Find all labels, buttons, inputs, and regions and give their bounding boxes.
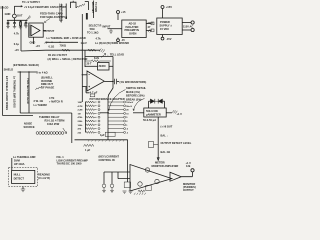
node shield rail hatch [88, 140, 125, 142]
connector PS1 AC 1 [191, 21, 194, 24]
svg-text:20 T: 20 T [87, 61, 93, 65]
wire PS1 right 1 [182, 22, 191, 24]
wire PS1 right 2 [182, 29, 191, 31]
svg-text:OUTPUT DETECT LEVEL: OUTPUT DETECT LEVEL [161, 141, 192, 145]
svg-text:BAL 4Ω: BAL 4Ω [161, 150, 171, 154]
svg-text:ISOLATED: ISOLATED [126, 25, 139, 29]
wire dvm ground stub [22, 187, 24, 190]
svg-text:R3 0.1Ω 4 TERM: R3 0.1Ω 4 TERM [45, 119, 65, 123]
wire main bus B1 vertical [81, 14, 83, 102]
svg-text:1μF: 1μF [100, 133, 105, 137]
wire U2 output [104, 80, 113, 82]
svg-text:READING: READING [38, 172, 50, 176]
svg-text:100mV: 100mV [126, 102, 134, 104]
ground DVM [21, 189, 25, 192]
svg-text:OF PHASE: OF PHASE [41, 86, 55, 90]
svg-text:NOISE: NOISE [24, 121, 32, 125]
connector PS1 AC 2 [191, 28, 194, 31]
svg-text:Lo (N) HI (W) WIRE WOUND: Lo (N) HI (W) WIRE WOUND [95, 41, 129, 45]
wire pointer arrow up-right [101, 54, 106, 58]
svg-text:BAL ↓: BAL ↓ [161, 134, 168, 138]
svg-text:INPUT CABLE: INPUT CABLE [59, 4, 63, 21]
svg-text:NULL: NULL [14, 173, 21, 177]
ground R1 [19, 27, 22, 29]
node U2 plus [88, 86, 90, 88]
capacitor C2 [13, 20, 16, 26]
wire U2 input top [82, 74, 87, 76]
wire cable 1 guide [58, 4, 60, 22]
wire U3 to psu top [146, 23, 151, 25]
wire ladder left bus [85, 102, 87, 132]
svg-text:OUT: OUT [17, 14, 23, 18]
svg-text:+15V: +15V [166, 5, 172, 9]
ground C8 [110, 188, 114, 193]
wire power leg to row [21, 49, 46, 52]
resistor R1 leg [20, 20, 22, 27]
wire selected tap row [100, 112, 108, 114]
preamp U3 box [122, 20, 146, 38]
svg-text:DVM: DVM [14, 159, 20, 163]
wire PS1 top [162, 9, 164, 19]
svg-text:POWER: POWER [160, 20, 170, 24]
svg-text:15 VDC: 15 VDC [160, 27, 169, 31]
svg-text:POT REFERENCE ADAPTER: POT REFERENCE ADAPTER [90, 97, 125, 101]
ground A1 left2 [129, 191, 133, 193]
wire cable 2 [65, 4, 67, 17]
svg-text:(±1 mV R): (±1 mV R) [38, 176, 50, 180]
node bus junction dot [107, 112, 109, 114]
wire shield border bottom [3, 115, 34, 117]
svg-text:TWISTED PAIR LEAD: TWISTED PAIR LEAD [26, 78, 30, 104]
svg-text:EXT SHIELD GUARD WIRES: EXT SHIELD GUARD WIRES [5, 76, 9, 110]
wire bottom row y112 [20, 112, 72, 114]
svg-text:MAKE (1%): MAKE (1%) [126, 90, 140, 94]
svg-text:4.7M: 4.7M [78, 105, 83, 108]
node junction s1 [20, 71, 21, 72]
svg-text:SWITCH DETAIL: SWITCH DETAIL [126, 86, 147, 90]
node PS1 left terminal 1 [151, 22, 154, 25]
wire drop to coil [71, 113, 73, 143]
wire U2 input bottom [82, 86, 87, 88]
wire PS1 bottom stub [162, 35, 164, 38]
resistor R6 feedback [85, 60, 111, 62]
svg-text:GND: GND [30, 40, 36, 44]
svg-text:μAMMETER: μAMMETER [146, 112, 161, 116]
wire feedback loop top [85, 56, 113, 58]
wire input rail [7, 19, 28, 21]
svg-text:100A 25W: 100A 25W [47, 122, 60, 126]
amplifier A2 small triangle [170, 172, 181, 181]
wire output down bus B2 [108, 81, 113, 98]
wire feed-thru pointer arrow [45, 19, 50, 23]
svg-text:+OUT: +OUT [147, 21, 154, 25]
svg-text:OVEN: OVEN [129, 32, 136, 36]
wire U1 power stub [33, 37, 35, 44]
svg-text:100k: 100k [78, 125, 84, 127]
wire twisted pair bracket [71, 1, 77, 8]
capacitor C4 output [114, 79, 116, 84]
wire row B right with resistor R5 [81, 49, 100, 51]
wire R7 left link [85, 65, 98, 67]
node junction s2 [28, 71, 29, 72]
resistor R3 diagonal zigzag [76, 3, 85, 8]
svg-text:750Ω: 750Ω [60, 44, 66, 48]
node row A left slashes [44, 41, 48, 44]
svg-text:MONITOR AMPLIFIER: MONITOR AMPLIFIER [152, 164, 179, 168]
wire feedback loop left vertical [84, 50, 86, 67]
wire rc leg 1 [103, 172, 105, 184]
svg-text:BEFORE (10%): BEFORE (10%) [126, 94, 145, 98]
svg-text:0.1μ: 0.1μ [14, 42, 20, 46]
svg-text:METER/: METER/ [155, 161, 165, 165]
connector -15V [161, 37, 164, 40]
svg-text:2 W. 4Ω: 2 W. 4Ω [34, 99, 43, 103]
ground C3 [24, 26, 27, 28]
node shield text [84, 144, 94, 146]
potentiometer arrow R2 [27, 16, 31, 21]
ladder left terminal circles [98, 101, 100, 133]
resistor ladder rows [86, 101, 97, 133]
resistor R4 on row B [62, 49, 70, 51]
power supply PS1 box [157, 18, 182, 35]
svg-text:1M: 1M [78, 113, 81, 115]
svg-text:4 TE: 4 TE [49, 96, 55, 100]
ground A1 left1 [123, 191, 127, 193]
wire amp input stub [118, 172, 130, 179]
wire shield drop 2 [28, 72, 30, 113]
wire U1 output [43, 30, 46, 32]
svg-text:+15: +15 [36, 44, 41, 48]
wire A2 output [181, 172, 192, 177]
dvm shield dashed box [9, 168, 38, 187]
op-amp U1 module box [29, 23, 43, 37]
svg-text:+ MATCH R: + MATCH R [49, 99, 63, 103]
node junction U2 out [112, 81, 114, 83]
svg-text:PREAMP IN: PREAMP IN [125, 28, 139, 32]
svg-text:INPUT: INPUT [103, 25, 111, 29]
op-amp U2 [87, 71, 104, 91]
ground U3 input [109, 29, 113, 34]
svg-text:(A) WELL + SMALL | DETECTOR: (A) WELL + SMALL | DETECTOR [48, 57, 88, 61]
wire diode stubs [149, 101, 165, 108]
svg-text:(B) WELL: (B) WELL [41, 75, 53, 79]
svg-text:DME OUT: DME OUT [41, 82, 53, 86]
node cable2 plug [65, 17, 67, 19]
ground C7 [102, 188, 106, 193]
svg-text:12k: 12k [186, 164, 191, 168]
wire dvm stub [11, 158, 13, 170]
svg-text:SH.GD: SH.GD [0, 6, 8, 10]
wire R7 right link [109, 65, 113, 67]
wire U3 input [108, 28, 122, 30]
capacitor C1 [7, 20, 10, 26]
node hatch between boxes [148, 29, 152, 32]
middle ladder rungs [108, 102, 124, 132]
diode D2 [158, 99, 162, 104]
svg-text:THURS DC 100 1000: THURS DC 100 1000 [57, 162, 82, 166]
node U2 minus [88, 74, 90, 76]
node junction bus input [82, 74, 83, 75]
capacitor C8 [110, 184, 114, 188]
svg-text:220k: 220k [78, 121, 84, 123]
node +V arrowhead [21, 5, 23, 7]
amplifier A1 big triangle [130, 165, 172, 192]
svg-text:IN DOME: IN DOME [41, 79, 52, 83]
wire c9 stub [126, 172, 128, 182]
svg-text:2.2M: 2.2M [78, 110, 83, 112]
svg-text:-15V: -15V [166, 37, 172, 41]
svg-text:115V AC: 115V AC [183, 24, 193, 28]
ground C2 [13, 27, 16, 29]
svg-text:+15: +15 [14, 48, 19, 52]
capacitor box under A1 [146, 185, 151, 190]
wire U3 to psu bottom [146, 30, 151, 32]
capacitor C9 box [124, 182, 130, 188]
svg-text:Lo THERM: Lo THERM [34, 103, 47, 107]
svg-text:TO +V SUPPLY: TO +V SUPPLY [22, 0, 40, 4]
connector -15 [117, 39, 120, 42]
ground meter right hatch [172, 110, 177, 114]
svg-text:50mV: 50mV [126, 106, 132, 108]
wire shield row y72 [18, 71, 38, 73]
wire left shield border vertical [2, 6, 4, 116]
svg-text:4.7k: 4.7k [96, 37, 102, 41]
svg-text:R1 2Ω 4 W POT: R1 2Ω 4 W POT [48, 53, 67, 57]
svg-text:(1% WW RESISTORS): (1% WW RESISTORS) [120, 80, 147, 84]
svg-text:+15: +15 [121, 10, 126, 14]
svg-text:1 μF: 1 μF [85, 148, 91, 152]
svg-text:AD-52: AD-52 [129, 21, 137, 25]
wire shield drop 1 [19, 72, 21, 113]
op-amp U1 triangle [31, 25, 40, 36]
svg-text:GND: GND [5, 12, 11, 16]
wire +V arrow J1 [14, 5, 22, 7]
node L1 pointer arrow [63, 128, 67, 133]
transistor Q2 circle [138, 182, 142, 186]
node junction dots row A [51, 42, 52, 43]
svg-text:DETECT: DETECT [14, 177, 25, 181]
svg-text:1 mV: 1 mV [81, 41, 87, 45]
wire cap to text [117, 80, 119, 82]
svg-text:+1 V: +1 V [177, 112, 183, 116]
node PS1 left terminal 2 [151, 29, 154, 32]
svg-text:(+ HI OUT: (+ HI OUT [161, 124, 173, 128]
wire cable 5 [92, 1, 94, 19]
svg-text:OUTPUT: OUTPUT [44, 29, 55, 33]
capacitor C3 [25, 20, 28, 26]
wire ladder bottom shield rail [75, 139, 128, 141]
svg-text:4.7k: 4.7k [14, 32, 20, 36]
svg-text:0.1Ω: 0.1Ω [49, 44, 55, 48]
node connector blob [86, 13, 88, 20]
svg-text:SHIELD: SHIELD [4, 68, 14, 72]
wire rc leg 2 [111, 172, 113, 184]
svg-text:THERMO RELAY: THERMO RELAY [39, 115, 60, 119]
capacitor C6 bottom ladder box [105, 132, 115, 136]
potentiometer R7 zero-adj box [98, 63, 110, 71]
svg-text:Lo THERMAL EMF LEADS: Lo THERMAL EMF LEADS [13, 76, 17, 108]
svg-text:Lo THERMAL EMF: Lo THERMAL EMF [13, 155, 36, 159]
svg-text:TO 1.1kΩ: TO 1.1kΩ [87, 30, 98, 34]
wire row A y42 [46, 41, 79, 43]
connector monitor output [191, 169, 194, 172]
wire meter down [157, 117, 159, 160]
svg-text:2 to 4 kΩ: 2 to 4 kΩ [37, 70, 48, 74]
capacitor C5 below U2 [86, 87, 90, 93]
wire R3 top link [85, 1, 89, 3]
svg-text:SOURCE: SOURCE [24, 125, 35, 129]
dvm DVM box [12, 170, 35, 183]
wire meter feed row [133, 112, 144, 114]
svg-text:OUTPUT: OUTPUT [183, 188, 194, 192]
svg-text:SUPPLY ±: SUPPLY ± [160, 24, 173, 28]
svg-text:HP 419A: HP 419A [14, 162, 25, 166]
svg-text:50-0-50 μA: 50-0-50 μA [143, 118, 156, 122]
middle ladder terminal circles [124, 101, 126, 133]
noise source zigzag [36, 86, 42, 90]
wire feedback loop right vertical [112, 57, 114, 82]
inductor L1 heater coil loops [36, 132, 64, 135]
svg-text:470k: 470k [78, 116, 84, 119]
svg-text:← TELL LEAD: ← TELL LEAD [107, 52, 125, 56]
wire middle ladder bus [107, 98, 109, 140]
wire meter right [166, 112, 172, 114]
wire power leg down [20, 20, 22, 51]
wire row B y50 [46, 49, 82, 51]
svg-text:500-0-500: 500-0-500 [146, 109, 158, 113]
wire wiper arc 1 [108, 90, 125, 111]
wire U3 -15 stub [117, 38, 119, 40]
wire jack top [13, 6, 15, 14]
capacitor C7 [102, 184, 106, 188]
transistor Q3 circle [155, 179, 159, 183]
svg-text:ZERO: ZERO [99, 64, 106, 68]
svg-text:10M: 10M [78, 102, 82, 104]
ground hatch below caption [99, 49, 105, 53]
wire jack to rail [13, 18, 15, 20]
wire U3 +15 down [117, 14, 119, 21]
diode D1 [149, 100, 151, 102]
meter M1 box [144, 108, 166, 117]
resistor under A1 zigzag [138, 190, 145, 192]
op-amp U1 input hatch [29, 25, 32, 37]
wire bus to bottom amp [127, 140, 129, 173]
svg-text:50Ω: 50Ω [90, 27, 95, 31]
svg-text:CONTROL IN: CONTROL IN [99, 158, 115, 162]
potentiometer level adj box [149, 142, 154, 148]
attenuator ladder left labels [78, 102, 84, 134]
preamp U3 terminal +15 [117, 11, 120, 14]
capacitor C5 box [90, 94, 95, 97]
wire cable 1 [60, 4, 62, 23]
power supply PS1 terminal +15V [161, 6, 164, 9]
resistor R5 [88, 49, 96, 51]
resistor hatch under A1 [134, 193, 146, 195]
wire wiper arc 2 [133, 99, 145, 111]
transistor Q1 circle [145, 168, 149, 172]
svg-text:TO PWR: TO PWR [94, 2, 98, 12]
ground C1 [6, 27, 9, 29]
connector J1 input jack [13, 14, 17, 18]
wire bottom rc rail [104, 171, 130, 173]
svg-text:Lo THERMAL EMF + DVM LEAD: Lo THERMAL EMF + DVM LEAD [47, 36, 86, 40]
middle ladder labels [126, 102, 134, 134]
wire cable 4 [88, 2, 90, 11]
svg-text:(EXTERNAL SHIELD): (EXTERNAL SHIELD) [13, 63, 39, 67]
node junction on bus row B [82, 50, 83, 51]
